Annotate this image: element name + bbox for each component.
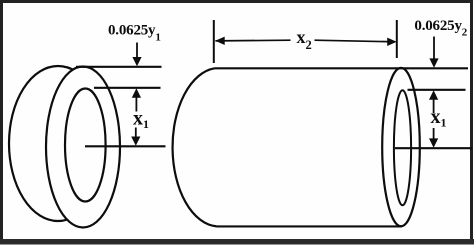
cylinder top edge line extended right as reference [215,67,469,69]
right x1 dimension upper arrow [429,90,438,113]
right centerline [395,147,472,149]
left x1 dimension upper arrow [132,88,141,111]
left reference line top of hole [94,87,161,89]
right x1 dimension lower arrow [429,128,438,148]
cylinder right end outer ellipse [382,68,420,226]
washer back ellipse [9,66,107,221]
washer hole ellipse [65,89,106,202]
left x1 dimension lower arrow [131,128,140,146]
bottom border band [0,239,474,245]
left 0.0625y1 leader arrow [132,43,141,67]
right 0.0625y2 leader arrow [429,37,438,68]
x2 dimension left extension line [213,20,215,63]
x2 dimension line with arrows [215,37,397,46]
left reference line top of outer face [76,66,162,68]
left centerline [85,145,166,147]
right reference line top of hole [408,89,466,91]
washer front face ellipse [46,67,120,228]
x2 dimension right extension line [396,20,398,58]
cylinder bottom edge line [217,225,403,227]
cylinder right end inner hole ellipse [394,90,411,205]
cylinder left end cap arc [173,68,217,226]
